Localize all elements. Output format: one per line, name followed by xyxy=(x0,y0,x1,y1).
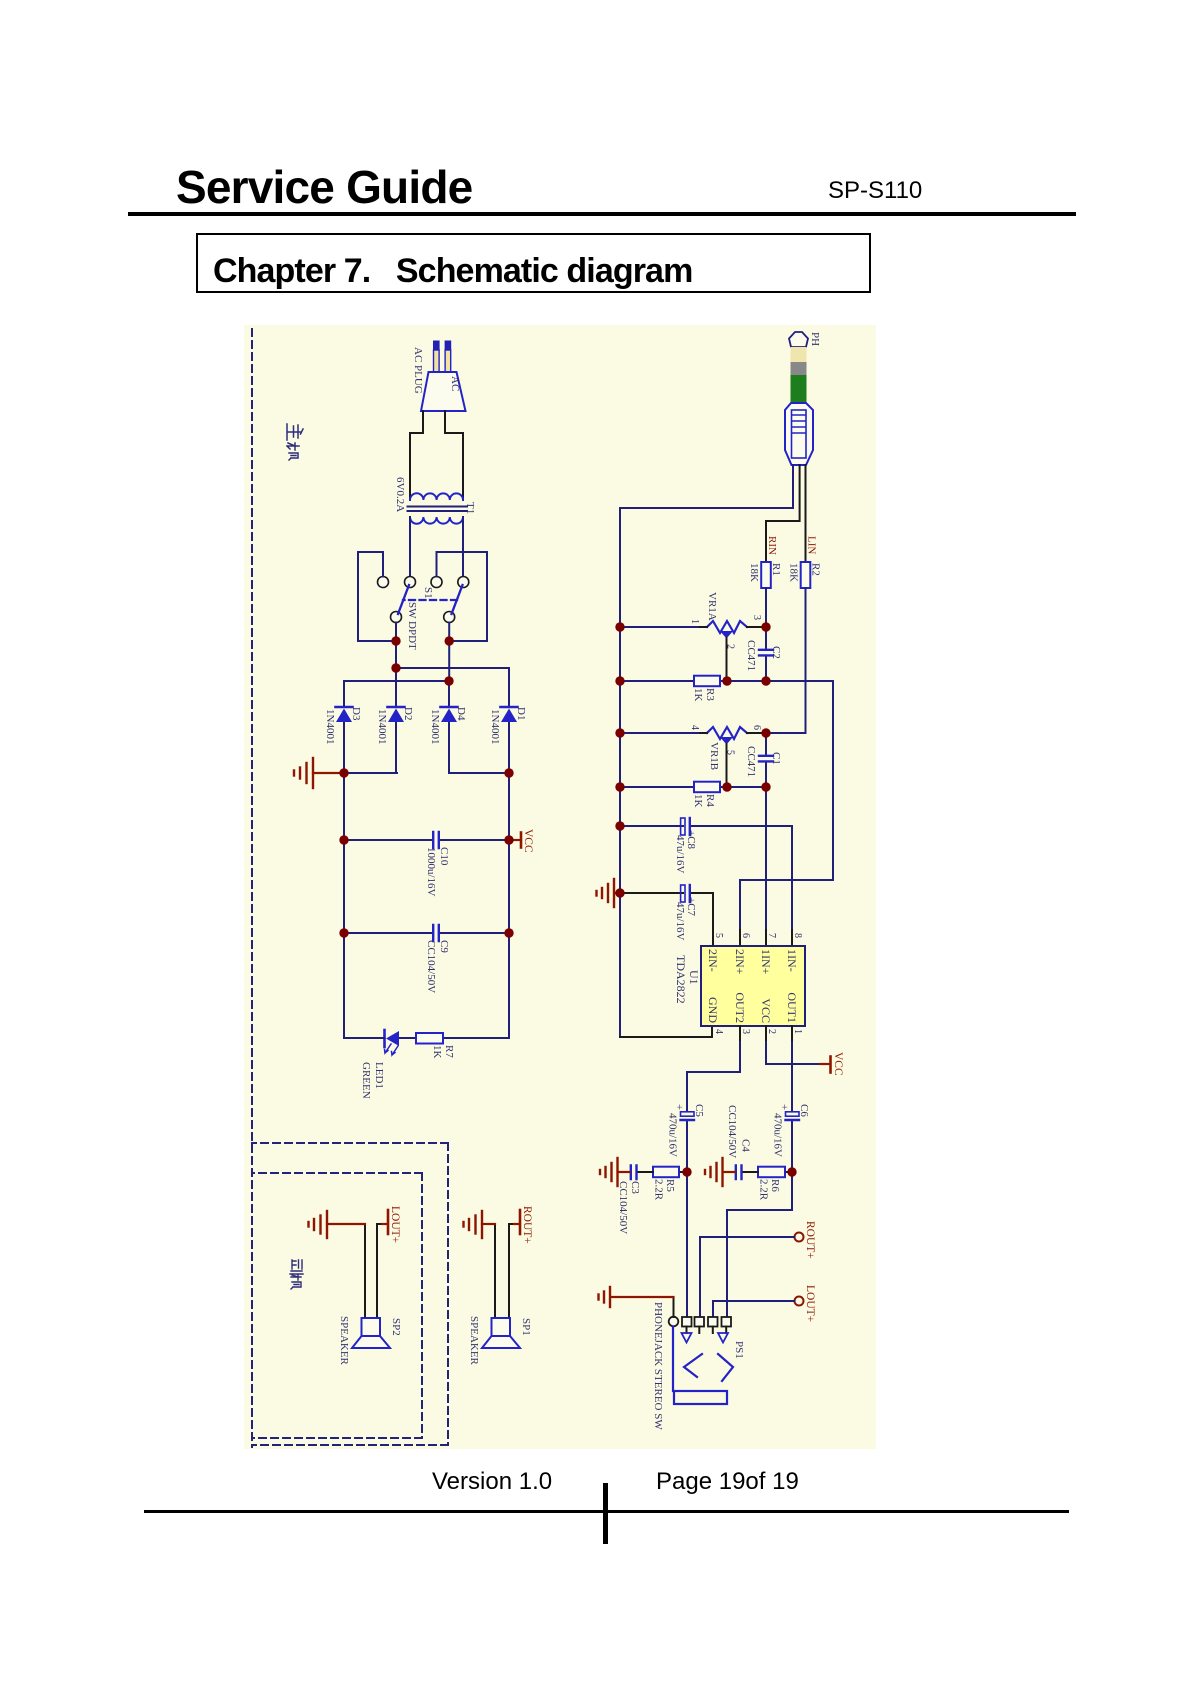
ground (SP1) bars xyxy=(464,1211,483,1238)
svg-text:470u/16V: 470u/16V xyxy=(667,1113,679,1157)
ground (signal rail) stem xyxy=(615,892,621,894)
wire jack ground xyxy=(673,1297,675,1317)
switch S1 coupling dashed link xyxy=(403,599,457,601)
resistor R7 xyxy=(416,1033,443,1044)
svg-text:R6: R6 xyxy=(769,1179,781,1192)
resistor R3 wires xyxy=(620,680,833,682)
zobel R5 stem xyxy=(679,1171,687,1173)
capacitor C9 plates xyxy=(433,925,439,941)
wire 1IN+ to U1 pin7 xyxy=(765,787,767,930)
svg-text:VR1B: VR1B xyxy=(708,742,720,770)
svg-text:RIN: RIN xyxy=(766,536,778,555)
label 副机 (secondary unit) xyxy=(290,1260,303,1289)
svg-text:18K: 18K xyxy=(748,563,760,582)
svg-text:+: + xyxy=(778,1104,790,1110)
svg-text:1000u/16V: 1000u/16V xyxy=(425,847,437,897)
svg-text:T1: T1 xyxy=(464,502,476,514)
phone jack PS1 contact L spring xyxy=(718,1354,733,1381)
svg-text:2.2R: 2.2R xyxy=(758,1179,770,1201)
svg-text:VCC: VCC xyxy=(832,1052,844,1076)
svg-text:47u/16V: 47u/16V xyxy=(674,835,686,874)
svg-text:1N4001: 1N4001 xyxy=(376,709,388,744)
ground (signal rail) bars xyxy=(597,879,615,907)
phone jack PS1 pad 4 xyxy=(708,1317,718,1327)
svg-text:LOUT+: LOUT+ xyxy=(804,1285,816,1322)
wire plug sleeve to LIN xyxy=(805,465,807,562)
resistor R5 xyxy=(653,1167,679,1178)
terminal ROUT+ (speaker SP1) xyxy=(509,1223,514,1225)
op-amp U1 TDA2822 body xyxy=(701,946,805,1026)
wire plug to transformer (upper) xyxy=(445,411,463,500)
junction dots (power section) xyxy=(339,636,513,937)
svg-text:ROUT+: ROUT+ xyxy=(521,1206,533,1244)
ground (jack) bars xyxy=(599,1287,611,1307)
svg-text:2IN-: 2IN- xyxy=(706,949,720,972)
svg-text:5: 5 xyxy=(725,750,736,755)
svg-text:C2: C2 xyxy=(770,646,782,659)
svg-text:R3: R3 xyxy=(704,688,716,701)
potentiometer VR1B xyxy=(707,727,747,739)
capacitor C7 plates xyxy=(681,885,685,902)
wire C6 to output path xyxy=(727,1122,792,1317)
diode D4 wire xyxy=(448,681,450,773)
transformer T1 core xyxy=(408,507,468,512)
ground (SP1) stem xyxy=(482,1223,495,1225)
wire switch stub B xyxy=(437,552,488,641)
wire switch stub A xyxy=(358,552,396,641)
svg-text:CC104/50V: CC104/50V xyxy=(425,940,437,993)
wire U1 pin2 to VCC xyxy=(766,1042,820,1064)
diode D2 1N4001 xyxy=(388,707,405,722)
phone jack PS1 contact R triangle xyxy=(682,1333,692,1343)
capacitor C2 wires xyxy=(765,627,767,681)
svg-text:R2: R2 xyxy=(810,563,822,576)
phone jack PS1 pad 3 lead xyxy=(698,1327,700,1334)
capacitor C10 wires xyxy=(344,839,509,841)
svg-text:5: 5 xyxy=(713,933,724,938)
phone jack PS1 pad 2 xyxy=(682,1317,692,1327)
svg-text:C3: C3 xyxy=(629,1181,641,1194)
svg-text:SW DPDT: SW DPDT xyxy=(406,602,418,650)
resistor R2 xyxy=(801,562,811,588)
svg-text:2: 2 xyxy=(766,1029,777,1034)
capacitor C8 wires xyxy=(620,826,792,930)
svg-text:2.2R: 2.2R xyxy=(653,1179,665,1201)
svg-text:D1: D1 xyxy=(515,707,527,720)
ground (bridge) bars xyxy=(294,758,313,788)
wire bridge DC minus segment xyxy=(344,772,397,774)
svg-text:2IN+: 2IN+ xyxy=(733,949,747,975)
zobel R6 stem xyxy=(785,1171,792,1173)
speaker SP1 cone xyxy=(482,1336,520,1348)
svg-text:1K: 1K xyxy=(692,794,704,808)
wire plug ring to RIN xyxy=(766,465,800,562)
wire R1 to VR1A pin3 xyxy=(765,588,767,627)
wire ROUT+ to jack xyxy=(700,1237,795,1317)
svg-text:6: 6 xyxy=(751,725,762,730)
wire signal ground rail xyxy=(619,508,621,1037)
svg-text:LOUT+: LOUT+ xyxy=(389,1206,401,1243)
speaker SP1 body xyxy=(492,1318,511,1336)
ground (C4) bars xyxy=(705,1158,723,1186)
svg-text:CC104/50V: CC104/50V xyxy=(617,1181,629,1234)
potentiometer VR1A xyxy=(707,621,747,633)
ground (bridge) stem xyxy=(313,772,344,774)
VCC symbol (amplifier) stem xyxy=(820,1063,830,1065)
svg-text:ROUT+: ROUT+ xyxy=(804,1221,816,1259)
svg-text:SPEAKER: SPEAKER xyxy=(338,1316,350,1366)
svg-text:OUT1: OUT1 xyxy=(785,992,799,1023)
svg-text:C5: C5 xyxy=(693,1104,705,1117)
svg-text:1N4001: 1N4001 xyxy=(429,709,441,744)
LED1 xyxy=(385,1030,400,1047)
U1 pin leads (left side) xyxy=(713,930,792,946)
wire secondary to switch (upper) xyxy=(462,517,464,577)
svg-text:1K: 1K xyxy=(692,688,704,702)
wire 0V rail xyxy=(343,773,345,1038)
svg-text:OUT2: OUT2 xyxy=(733,992,747,1023)
svg-text:1N4001: 1N4001 xyxy=(324,709,336,744)
resistor R6 xyxy=(758,1167,785,1178)
ground (SP2) stem xyxy=(327,1223,365,1225)
resistor R4 xyxy=(694,782,720,793)
svg-text:C1: C1 xyxy=(770,752,782,765)
wire plug to transformer (lower) xyxy=(410,411,423,500)
phone jack PS1 pad 1 (sleeve) xyxy=(669,1317,679,1327)
svg-text:C10: C10 xyxy=(438,847,450,866)
svg-text:6V0.2A: 6V0.2A xyxy=(394,477,406,512)
svg-text:C9: C9 xyxy=(438,940,450,953)
LED1 wire to rail xyxy=(344,1037,385,1039)
schematic sheet background xyxy=(244,325,876,1449)
svg-text:R7: R7 xyxy=(443,1045,455,1058)
svg-text:D3: D3 xyxy=(350,707,362,721)
wire VR1B pin4 to rail xyxy=(620,732,698,734)
svg-text:VCC: VCC xyxy=(522,829,534,853)
transformer T1 secondary winding xyxy=(410,517,463,524)
ground (jack) stem xyxy=(611,1296,674,1298)
svg-text:CC471: CC471 xyxy=(745,640,757,671)
svg-text:D4: D4 xyxy=(455,707,467,721)
svg-text:U1: U1 xyxy=(687,970,701,985)
diode D4 1N4001 xyxy=(441,707,458,722)
svg-text:470u/16V: 470u/16V xyxy=(772,1113,784,1157)
svg-text:47u/16V: 47u/16V xyxy=(674,902,686,941)
wire LOUT+ to jack xyxy=(713,1301,795,1317)
svg-text:AC: AC xyxy=(449,376,461,391)
svg-text:3: 3 xyxy=(751,615,762,620)
svg-text:1N4001: 1N4001 xyxy=(489,709,501,744)
svg-text:6: 6 xyxy=(740,933,751,938)
headphone plug band 1 (cream) xyxy=(791,347,807,362)
svg-text:PS1: PS1 xyxy=(733,1341,745,1359)
phone jack PS1 sleeve bracket xyxy=(674,1391,727,1404)
junction dots (audio section) xyxy=(615,622,796,1176)
svg-text:4: 4 xyxy=(713,1029,724,1034)
ground (C3) bars xyxy=(600,1158,618,1186)
main-unit dashed boundary 主机 xyxy=(252,329,448,1447)
label 主机 (main unit) xyxy=(287,424,303,460)
phone jack PS1 contact R spring xyxy=(684,1354,702,1377)
headphone plug band 2 (gray) xyxy=(791,362,807,375)
svg-text:VCC: VCC xyxy=(759,998,773,1023)
headphone plug band 3 (green) xyxy=(791,375,807,402)
svg-text:CC104/50V: CC104/50V xyxy=(726,1105,738,1158)
capacitor C3 plates xyxy=(631,1166,637,1180)
headphone plug body inner rect xyxy=(792,410,807,458)
svg-text:GREEN: GREEN xyxy=(360,1062,372,1099)
VR1B wiper wire xyxy=(726,744,728,787)
phone jack PS1 contact R lead xyxy=(686,1327,688,1334)
wire rail to U1 pin4 GND xyxy=(620,1026,712,1037)
svg-text:SPEAKER: SPEAKER xyxy=(468,1316,480,1366)
diode D2 wire xyxy=(395,668,397,773)
svg-text:C4: C4 xyxy=(740,1139,752,1152)
switch S1 blade 2 xyxy=(398,585,409,614)
resistor R4 wires xyxy=(620,786,766,788)
capacitor C1 wires xyxy=(765,733,767,787)
wire bridge DC plus segment xyxy=(449,772,509,774)
svg-text:R5: R5 xyxy=(664,1179,676,1192)
wire R2 to VR1B pin6 xyxy=(766,588,806,733)
ground (SP2) bars xyxy=(309,1211,328,1238)
speaker SP2 wire + xyxy=(376,1224,378,1318)
headphone plug body hatch xyxy=(793,415,806,433)
svg-text:GND: GND xyxy=(706,997,720,1023)
ground (C3) stem xyxy=(618,1171,630,1173)
diode D3 wire xyxy=(343,681,345,773)
speaker SP2 body xyxy=(362,1318,381,1336)
wire bridge AC node 2 xyxy=(344,680,449,682)
svg-text:TDA2822: TDA2822 xyxy=(674,955,688,1004)
diode D1 1N4001 xyxy=(501,707,518,722)
svg-text:SP1: SP1 xyxy=(520,1318,532,1336)
svg-text:2: 2 xyxy=(725,644,736,649)
speaker SP1 wire + xyxy=(508,1224,510,1318)
phone jack PS1 contact L triangle xyxy=(718,1333,728,1343)
ground (C4) stem xyxy=(723,1171,735,1173)
svg-text:R4: R4 xyxy=(704,794,716,807)
wire U1 pin3 OUT2 to C5 xyxy=(687,1042,740,1111)
capacitor C5 plates xyxy=(681,1112,695,1116)
svg-text:3: 3 xyxy=(740,1029,751,1034)
capacitor C1 plates xyxy=(759,756,773,762)
svg-text:1IN-: 1IN- xyxy=(785,949,799,972)
capacitor C4 plates xyxy=(736,1166,742,1180)
svg-text:1: 1 xyxy=(689,619,700,624)
wire U1 pin1 OUT1 to C6 xyxy=(791,1042,793,1111)
svg-text:8: 8 xyxy=(792,933,803,938)
switch S1 terminal circles xyxy=(378,577,469,623)
VR1B wiper arrow xyxy=(720,737,733,745)
capacitor C6 plates xyxy=(786,1112,800,1116)
svg-text:LIN: LIN xyxy=(806,536,818,554)
wire R5 to C3 xyxy=(637,1171,653,1173)
svg-text:1K: 1K xyxy=(431,1045,443,1059)
svg-text:VR1A: VR1A xyxy=(706,592,718,621)
svg-text:7: 7 xyxy=(766,933,777,938)
svg-text:CC471: CC471 xyxy=(745,746,757,777)
resistor R1 xyxy=(761,562,771,588)
speaker SP2 wire - xyxy=(364,1224,366,1318)
AC plug prong 1 (upper in landscape) xyxy=(445,350,451,372)
terminal LOUT+ (amplifier output) xyxy=(795,1297,804,1306)
phone jack PS1 pad 5 xyxy=(722,1317,732,1327)
AC plug prong 2 xyxy=(434,350,440,372)
capacitor C7 wires xyxy=(620,893,713,930)
diode D1 wire xyxy=(508,668,510,773)
svg-text:1IN+: 1IN+ xyxy=(759,949,773,975)
svg-text:+: + xyxy=(673,1104,685,1110)
speaker SP2 cone xyxy=(352,1336,390,1348)
diode D3 1N4001 xyxy=(336,707,353,722)
svg-text:18K: 18K xyxy=(788,563,800,582)
svg-text:SP2: SP2 xyxy=(390,1318,402,1336)
transformer T1 primary winding xyxy=(410,493,463,500)
speaker SP1 wire - xyxy=(494,1224,496,1318)
wire R6 to C4 xyxy=(742,1171,758,1173)
svg-text:1: 1 xyxy=(792,1029,803,1034)
wire switch pole 2 to node xyxy=(395,623,397,669)
capacitor C2 plates xyxy=(759,650,773,656)
svg-text:S1: S1 xyxy=(422,587,434,599)
phone jack PS1 sleeve line xyxy=(672,1327,674,1392)
svg-text:R1: R1 xyxy=(770,563,782,576)
wire secondary to switch (lower) xyxy=(409,517,411,577)
headphone plug body xyxy=(785,403,813,465)
wire switch pole 1 to node xyxy=(448,623,450,682)
wire 2IN+ from R3 top to U1 pin6 xyxy=(740,681,833,930)
VCC symbol (bridge) xyxy=(509,839,520,841)
VR1A wiper arrow xyxy=(720,631,733,639)
capacitor C10 plates xyxy=(433,832,439,848)
U1 pin leads (right side) xyxy=(740,1026,792,1042)
switch S1 blade 1 xyxy=(452,585,463,614)
wire ground rail vertical drop xyxy=(620,507,793,509)
svg-text:AC PLUG: AC PLUG xyxy=(412,347,424,394)
capacitor C8 plates xyxy=(681,818,685,835)
svg-text:4: 4 xyxy=(689,725,700,730)
AC plug body xyxy=(421,372,466,411)
wire C5 to jack pin xyxy=(686,1122,688,1317)
wire VCC rail xyxy=(508,773,510,1038)
VCC symbol (amplifier) bar xyxy=(829,1057,832,1073)
svg-text:PHONEJACK STEREO SW: PHONEJACK STEREO SW xyxy=(652,1302,664,1430)
terminal LOUT+ (speaker SP2) xyxy=(377,1223,382,1225)
terminal ROUT+ (amplifier output) xyxy=(795,1233,804,1242)
svg-text:PH: PH xyxy=(809,332,821,346)
resistor R3 xyxy=(694,676,720,687)
wire bridge AC node 1 xyxy=(396,667,509,669)
svg-text:LED1: LED1 xyxy=(373,1062,385,1089)
VR1A wiper wire xyxy=(726,638,728,681)
resistor R7 wire xyxy=(399,1037,509,1039)
capacitor C9 wires xyxy=(344,932,509,934)
wire VR1A pin1 to rail xyxy=(620,626,698,628)
phone jack PS1 pad 3 xyxy=(695,1317,705,1327)
svg-text:C6: C6 xyxy=(798,1104,810,1117)
svg-text:D2: D2 xyxy=(402,707,414,720)
phone jack PS1 contact L lead xyxy=(725,1327,727,1334)
LED1 arrows xyxy=(385,1044,399,1055)
headphone plug PH tip xyxy=(789,332,808,347)
wire plug tip to ground rail xyxy=(792,465,794,508)
phone jack PS1 pad 4 lead xyxy=(712,1327,714,1334)
